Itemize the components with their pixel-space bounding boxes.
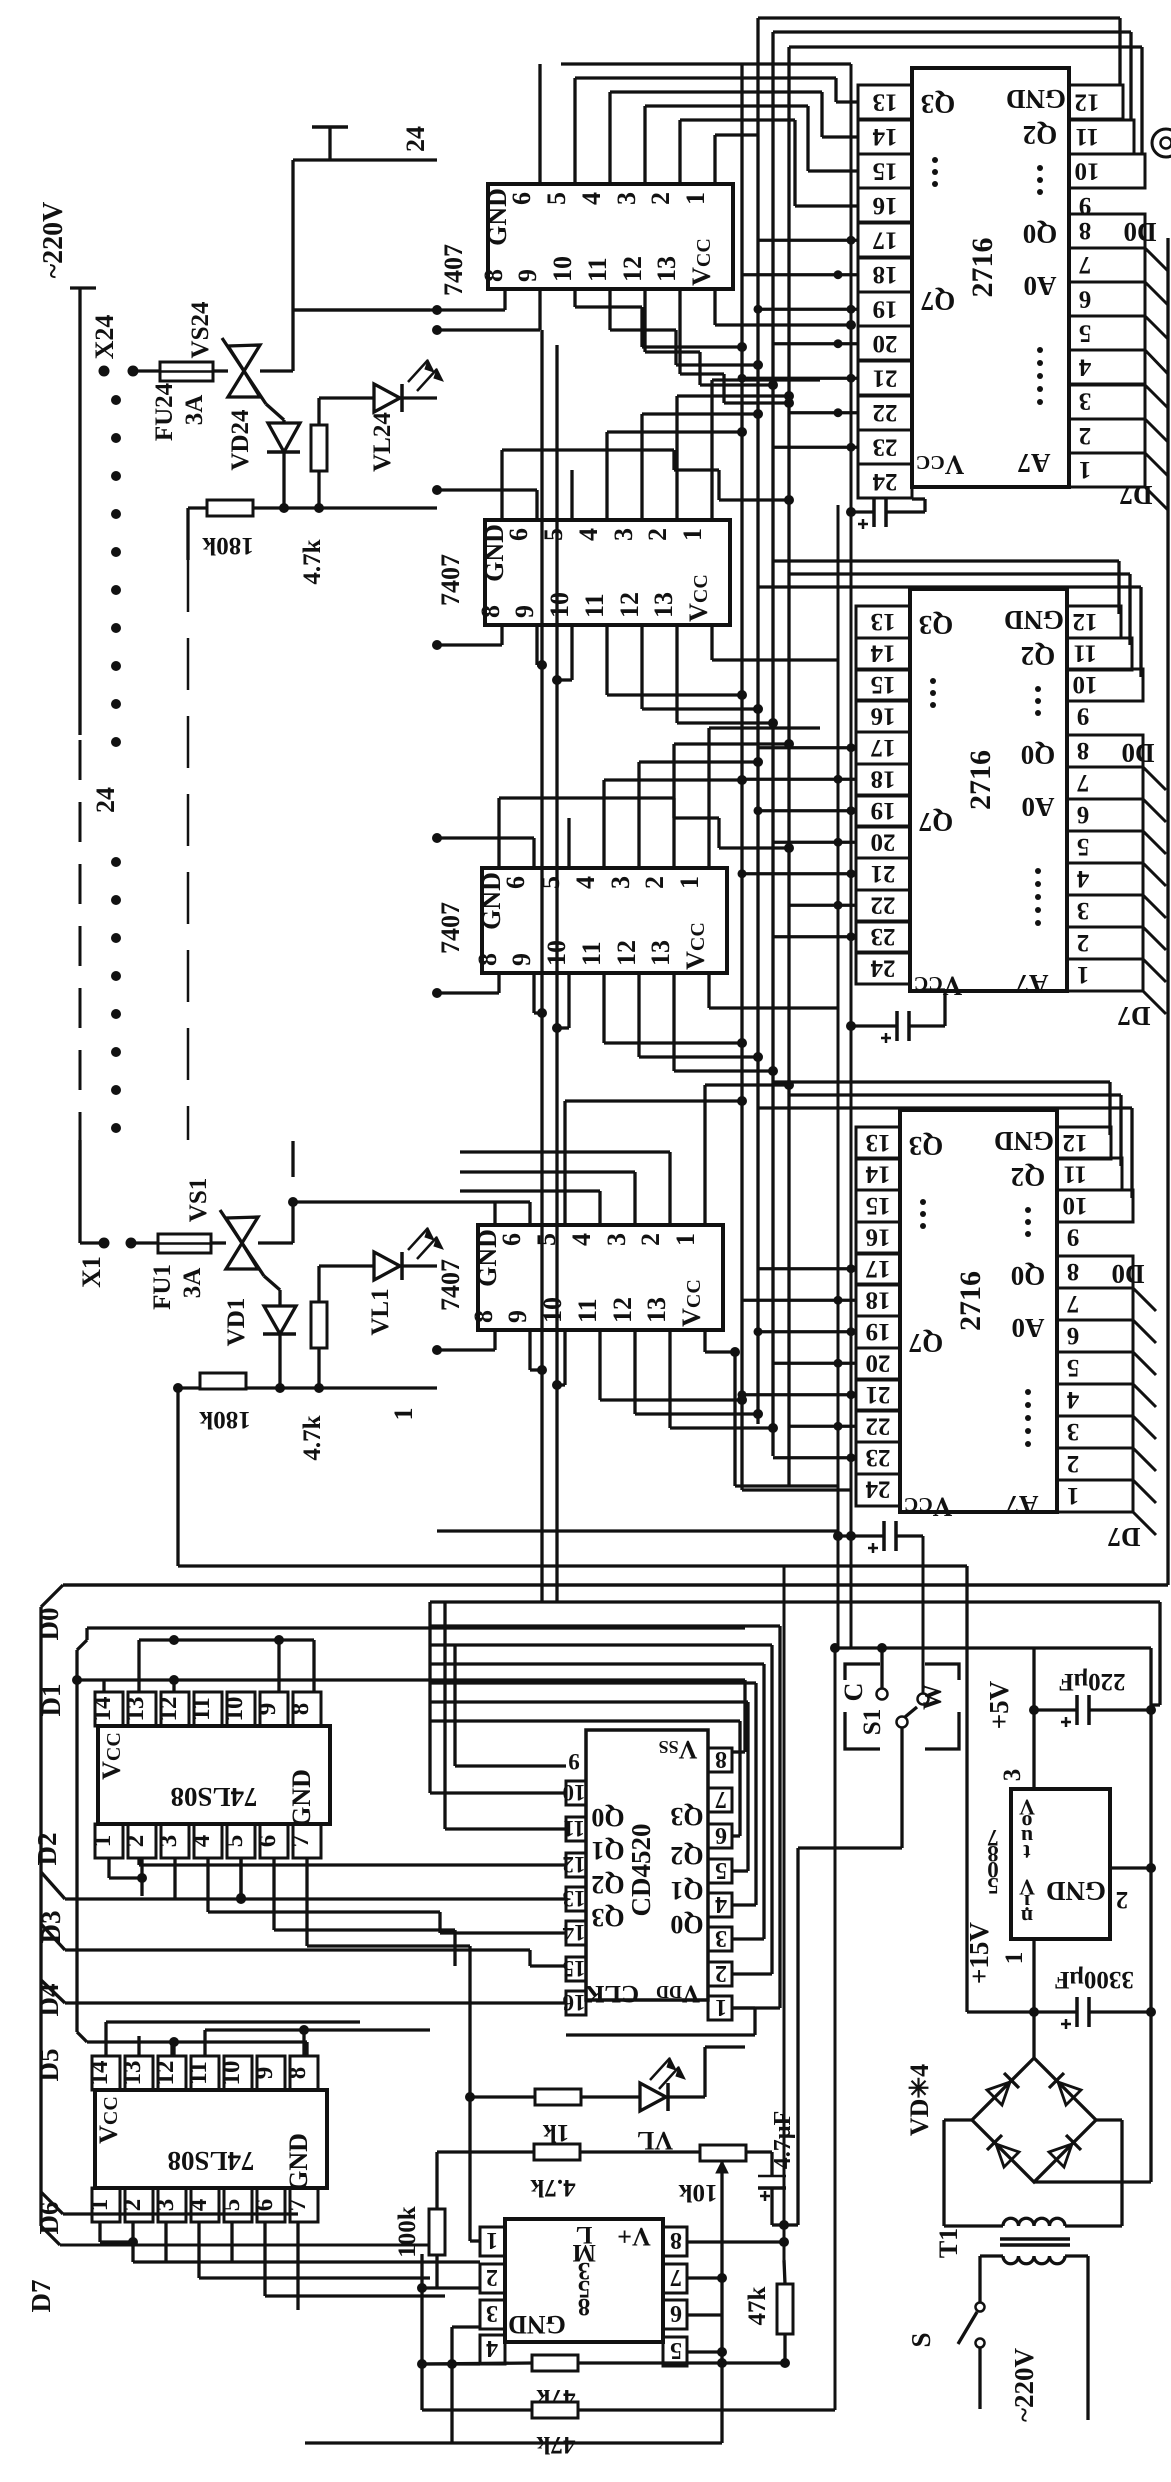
- svg-text:16: 16: [873, 192, 898, 219]
- svg-text:7407: 7407: [436, 1259, 465, 1311]
- 2716 U1 data pin stubs 8-1 with bus diagonals: [1069, 214, 1145, 487]
- svg-text:VL1: VL1: [367, 1288, 394, 1335]
- wire cap3 to S1 W: [922, 1536, 925, 1693]
- svg-text:VD1: VD1: [223, 1298, 250, 1347]
- +15V rail: [965, 1566, 968, 2012]
- svg-text:16: 16: [563, 1990, 586, 2015]
- svg-text:Q0: Q0: [1021, 740, 1056, 770]
- svg-text:4.7k: 4.7k: [299, 1415, 326, 1460]
- wire: mains vertical rail: [70, 286, 96, 289]
- svg-text:5: 5: [670, 2337, 682, 2363]
- svg-text:16: 16: [871, 702, 896, 729]
- address stub connection wires: [758, 1267, 856, 1270]
- svg-text:18: 18: [873, 261, 898, 288]
- EPROM 2716 U2 body: [910, 589, 1067, 991]
- svg-text:2: 2: [1067, 1450, 1080, 1477]
- svg-text:5: 5: [1077, 833, 1090, 860]
- svg-text:1: 1: [86, 2199, 113, 2212]
- svg-text:11: 11: [1073, 639, 1097, 666]
- CD4520 wires right: outputs up-left: [430, 1624, 780, 1627]
- svg-text:3A: 3A: [179, 1268, 206, 1299]
- resistor 4.7k (ch1): [317, 1266, 320, 1302]
- svg-text:20: 20: [866, 1349, 891, 1376]
- svg-text:7: 7: [1077, 769, 1090, 796]
- svg-text:2: 2: [486, 2264, 498, 2290]
- svg-text:1: 1: [1077, 961, 1090, 988]
- svg-text:Q2: Q2: [670, 1841, 703, 1870]
- buffer IC 7407 #4: [469, 1225, 723, 1330]
- svg-text:24: 24: [870, 954, 896, 981]
- svg-text:20: 20: [873, 330, 898, 357]
- svg-text:+5V: +5V: [984, 1680, 1014, 1729]
- svg-text:C: C: [839, 1683, 868, 1702]
- selector switch S1 dashed box: [845, 1664, 880, 1680]
- svg-text:X24: X24: [90, 315, 119, 360]
- svg-text:4: 4: [1066, 1386, 1079, 1413]
- resistor 4.7k bottom: [534, 2144, 580, 2160]
- svg-text:D7: D7: [1120, 480, 1153, 510]
- LED VL24: [319, 396, 374, 399]
- svg-text:5: 5: [1079, 319, 1092, 346]
- svg-text:Q2: Q2: [1023, 120, 1058, 150]
- svg-text:3300µF: 3300µF: [1054, 1966, 1134, 1993]
- svg-text:7: 7: [1067, 1290, 1080, 1317]
- 74LS08 U4 top pin stubs 14-8: [95, 1692, 321, 1726]
- svg-text:VD24: VD24: [227, 409, 254, 471]
- svg-text:n: n: [1021, 1905, 1033, 1930]
- svg-text:D0: D0: [1122, 738, 1155, 768]
- svg-text:V+: V+: [617, 2222, 651, 2251]
- svg-text:14: 14: [89, 1696, 116, 1722]
- svg-text:12: 12: [1073, 608, 1098, 635]
- 7407#2 bottom pin wires: [500, 625, 503, 645]
- long vertical bus lines: [756, 18, 759, 1424]
- channel 1: wire X1 to fuse: [136, 1241, 158, 1244]
- svg-text:7: 7: [715, 1786, 727, 1812]
- svg-text:GND: GND: [287, 1769, 316, 1827]
- 74LS08 U5 bottom pin stubs 1-7: [92, 2188, 318, 2222]
- svg-text:VS1: VS1: [185, 1178, 212, 1222]
- svg-text:Q0: Q0: [1011, 1261, 1046, 1291]
- svg-text:9: 9: [254, 1703, 281, 1716]
- svg-text:21: 21: [871, 860, 896, 887]
- 7407#2 top pin wires: [437, 488, 537, 491]
- +5V rail: [1032, 1648, 1035, 1789]
- svg-text:D7: D7: [26, 2280, 56, 2313]
- svg-text:D7: D7: [1118, 1001, 1151, 1031]
- svg-text:10: 10: [218, 2061, 245, 2086]
- wire: 180k left select line to bottom: [178, 1386, 200, 1389]
- svg-text:11: 11: [1075, 123, 1099, 150]
- wire gnd return: [834, 1648, 837, 2410]
- svg-text:FU24: FU24: [151, 382, 178, 441]
- D1 top feed: [87, 1626, 745, 1629]
- CD4520 right pin stubs: [708, 1748, 732, 2020]
- svg-text:A7: A7: [1018, 448, 1051, 478]
- channel 24: wire X24 to fuse: [138, 369, 160, 372]
- 7407#1 top pin wires: [538, 64, 541, 184]
- resistor 100k: [435, 2152, 438, 2209]
- node wires ch1: [246, 1386, 437, 1389]
- svg-text:Q2: Q2: [591, 1870, 624, 1899]
- svg-text:6: 6: [251, 2199, 278, 2212]
- svg-text:2: 2: [119, 2199, 146, 2212]
- svg-text:8: 8: [1077, 737, 1090, 764]
- ground/common bar: [312, 125, 348, 129]
- capacitor 4.7uF: [746, 2150, 772, 2153]
- chip2/chip3 pins 12-10 bus links: [773, 559, 1119, 562]
- svg-text:10: 10: [221, 1697, 248, 1722]
- svg-text:10k: 10k: [678, 2179, 717, 2206]
- svg-text:2716: 2716: [966, 238, 999, 298]
- page connector marker: [1152, 129, 1171, 157]
- 2716 U1 left pin stubs 13-24: [858, 85, 912, 498]
- svg-text:1: 1: [715, 1994, 727, 2020]
- wire D7 line: [60, 2244, 436, 2247]
- svg-text:10: 10: [1073, 671, 1098, 698]
- svg-text:GND: GND: [508, 2310, 566, 2339]
- S1 terminal C: [877, 1689, 888, 1700]
- svg-text:13: 13: [871, 608, 896, 635]
- svg-text:18: 18: [866, 1286, 891, 1313]
- buffer IC 7407 #1: [479, 184, 733, 289]
- svg-text:100k: 100k: [394, 2206, 421, 2258]
- svg-text:8: 8: [1079, 217, 1092, 244]
- svg-text:14: 14: [870, 639, 896, 666]
- svg-text:9: 9: [1067, 1223, 1080, 1250]
- svg-text:23: 23: [873, 433, 898, 460]
- svg-text:4.7k: 4.7k: [530, 2174, 575, 2201]
- 74LS08 U4 bottom pin stubs 1-7: [95, 1824, 321, 1858]
- svg-text:5: 5: [715, 1857, 727, 1883]
- svg-text:24: 24: [401, 126, 430, 152]
- svg-text:Q3: Q3: [591, 1903, 624, 1932]
- svg-text:24: 24: [872, 468, 898, 495]
- svg-text:7407: 7407: [439, 244, 468, 296]
- S1 pole: [897, 1717, 908, 1728]
- svg-text:8: 8: [578, 2293, 591, 2320]
- svg-text:21: 21: [866, 1381, 891, 1408]
- 2716 U1 right pin stubs 12-9: [1069, 85, 1145, 188]
- svg-text:8: 8: [670, 2227, 682, 2253]
- 74LS08 U5 top pin stubs 14-8: [92, 2056, 318, 2090]
- capacitor 3300uF: [1075, 1997, 1079, 2027]
- switch S: [978, 2256, 981, 2302]
- svg-text:13: 13: [122, 1697, 149, 1722]
- capacitor 220uF: [1034, 1708, 1077, 1711]
- wire: MT2 stub to common line: [291, 160, 294, 310]
- 7805 pin1 wire: [1032, 1939, 1035, 2012]
- svg-text:D2: D2: [32, 1833, 62, 1866]
- AND IC 74LS08 U4 body: [98, 1726, 330, 1824]
- svg-text:Q0: Q0: [591, 1803, 624, 1832]
- resistor 47k vertical: [784, 2260, 785, 2284]
- triac VS1: [211, 1241, 226, 1244]
- svg-text:3A: 3A: [181, 395, 208, 426]
- address stub connection wires: [758, 746, 856, 749]
- resistor 47k #1: [532, 2355, 578, 2371]
- terminal X1: [99, 1238, 110, 1249]
- bridge rectifier VD*4: [1032, 2012, 1035, 2058]
- 2716 U2 left pin stubs 13-24: [856, 606, 910, 984]
- svg-text:12: 12: [155, 1697, 182, 1722]
- svg-text:8: 8: [715, 1746, 727, 1772]
- svg-text:220µF: 220µF: [1058, 1668, 1125, 1695]
- EPROM 2716 U3 body: [900, 1110, 1057, 1512]
- 74LS08 U5 wires: [104, 2022, 107, 2056]
- wire +15V to LM358 V+: [783, 1567, 786, 2260]
- 74LS08 U4 wires: [102, 1680, 105, 1692]
- 2716 U2 right pin stubs 12-9: [1067, 606, 1143, 701]
- EPROM 2716 U1 body: [912, 68, 1069, 487]
- svg-text:3: 3: [715, 1925, 727, 1951]
- data bus D0-D7 spine: [39, 1607, 42, 2226]
- svg-text:6: 6: [254, 1835, 281, 1848]
- svg-text:W: W: [918, 1684, 947, 1710]
- svg-text:12: 12: [1063, 1129, 1088, 1156]
- node wires ch24: [253, 506, 437, 509]
- svg-text:6: 6: [1067, 1322, 1080, 1349]
- D3 line: [41, 1924, 65, 1950]
- 7407#4 bottom pin wires: [493, 1330, 496, 1350]
- LM358 right pin stubs 8-5: [663, 2227, 687, 2366]
- svg-text:3: 3: [999, 1769, 1026, 1782]
- wire: VS24 MT2 up and right: [260, 369, 293, 372]
- svg-text:19: 19: [873, 295, 898, 322]
- svg-text:74LS08: 74LS08: [170, 1782, 257, 1812]
- resistor 1k: [535, 2089, 581, 2105]
- svg-text:6: 6: [1077, 801, 1090, 828]
- terminal dots column (channels 2..23): [111, 395, 121, 405]
- svg-text:2: 2: [1077, 929, 1090, 956]
- svg-text:14: 14: [865, 1160, 891, 1187]
- svg-text:Q3: Q3: [670, 1802, 703, 1831]
- svg-text:13: 13: [873, 88, 898, 115]
- resistor 180k (ch24): [207, 500, 253, 516]
- svg-text:3: 3: [1067, 1418, 1080, 1445]
- svg-text:D5: D5: [34, 2049, 64, 2082]
- svg-text:Q1: Q1: [670, 1876, 703, 1905]
- svg-text:13: 13: [866, 1129, 891, 1156]
- svg-text:20: 20: [871, 828, 896, 855]
- svg-text:74LS08: 74LS08: [167, 2146, 254, 2176]
- GND rail top: [838, 1646, 1151, 1649]
- wire: VS1 MT2 up and right: [258, 1241, 293, 1244]
- svg-text:5: 5: [1067, 1354, 1080, 1381]
- svg-text:+15V: +15V: [964, 1922, 994, 1984]
- decoupling capacitor C2: [851, 1024, 897, 1027]
- svg-text:4: 4: [486, 2335, 498, 2361]
- wire: 180k left to select line: [188, 506, 207, 509]
- CD4520 extra feed verticals: [428, 1602, 431, 1793]
- svg-text:Q0: Q0: [1023, 219, 1058, 249]
- svg-text:Q7: Q7: [919, 807, 954, 837]
- svg-text:15: 15: [873, 157, 898, 184]
- LED VL: [640, 2083, 666, 2111]
- select line from 180k: [178, 1564, 967, 1567]
- diode VD1: [278, 1290, 281, 1306]
- D6 line: [41, 2192, 63, 2214]
- S1 terminal W: [918, 1694, 929, 1705]
- svg-text:7: 7: [1079, 251, 1092, 278]
- fuse FU1 3A: [158, 1234, 211, 1253]
- line y1602: [430, 1600, 1160, 1603]
- svg-text:11: 11: [185, 2061, 212, 2085]
- svg-text:4: 4: [188, 1834, 215, 1847]
- bridge corners wiring: [944, 2118, 972, 2121]
- fuse FU24 3A: [160, 362, 213, 381]
- svg-text:21: 21: [873, 364, 898, 391]
- svg-text:4: 4: [1076, 865, 1089, 892]
- svg-text:9: 9: [568, 1749, 580, 1774]
- svg-text:7407: 7407: [436, 554, 465, 606]
- bus line y64: [561, 62, 851, 65]
- svg-text:VDD: VDD: [656, 1980, 700, 2007]
- D0 top line: [63, 1583, 1168, 1586]
- svg-text:180k: 180k: [202, 532, 254, 559]
- 2716 U3 data pin stubs 8-1 with bus diagonals: [1057, 1256, 1133, 1512]
- 2716 U3 left pin stubs 13-24: [856, 1127, 900, 1506]
- svg-text:12: 12: [1075, 88, 1100, 115]
- svg-text:t: t: [1023, 1840, 1031, 1865]
- svg-text:A7: A7: [1016, 969, 1049, 999]
- svg-text:15: 15: [871, 671, 896, 698]
- svg-text:15: 15: [866, 1192, 891, 1219]
- buffer IC 7407 #3: [473, 868, 727, 973]
- 2716 U2 data pin stubs 8-1 with bus diagonals: [1067, 735, 1143, 991]
- svg-text:A0: A0: [1022, 792, 1055, 822]
- svg-text:4: 4: [715, 1891, 727, 1917]
- svg-text:Q0: Q0: [670, 1910, 703, 1939]
- svg-text:A0: A0: [1012, 1313, 1045, 1343]
- svg-text:1: 1: [1001, 1952, 1028, 1965]
- svg-text:FU1: FU1: [149, 1264, 176, 1310]
- svg-text:1: 1: [389, 1408, 418, 1421]
- svg-text:D0: D0: [1124, 217, 1157, 247]
- svg-text:3: 3: [155, 1835, 182, 1848]
- svg-text:7: 7: [287, 1835, 314, 1848]
- svg-text:T1: T1: [934, 2228, 963, 2258]
- svg-text:2: 2: [122, 1835, 149, 1848]
- svg-text:10: 10: [1075, 157, 1100, 184]
- svg-text:1: 1: [89, 1835, 116, 1848]
- svg-text:VD✳4: VD✳4: [905, 2064, 934, 2136]
- svg-text:22: 22: [866, 1412, 891, 1439]
- svg-text:Q2: Q2: [1011, 1162, 1046, 1192]
- svg-text:3: 3: [152, 2199, 179, 2212]
- svg-text:13: 13: [119, 2061, 146, 2086]
- D2 line: [41, 1872, 65, 1899]
- LED arrows ch1: [408, 1228, 428, 1250]
- svg-text:D7: D7: [1108, 1522, 1141, 1552]
- svg-text:Q1: Q1: [591, 1836, 624, 1865]
- CD4520 left pin stubs: [566, 1781, 586, 2015]
- svg-text:D0: D0: [1112, 1259, 1145, 1289]
- svg-text:17: 17: [866, 1255, 891, 1282]
- svg-text:VS24: VS24: [187, 301, 214, 358]
- resistor 180k (ch1): [200, 1373, 246, 1389]
- broken repeat stub: [291, 1141, 294, 1177]
- right rail: [1149, 1648, 1152, 2182]
- 7407#3 bottom pin wires: [497, 973, 500, 993]
- svg-text:1: 1: [486, 2227, 498, 2253]
- svg-text:5: 5: [987, 1873, 999, 1898]
- svg-text:5: 5: [221, 1835, 248, 1848]
- potentiometer 10k: [700, 2145, 746, 2161]
- rail GND/VCC right: [850, 64, 853, 1648]
- svg-text:VL24: VL24: [369, 412, 396, 472]
- CD4520 wires left: [455, 1764, 566, 1767]
- CLK/VDD wires: [732, 2006, 755, 2009]
- svg-text:CD4520: CD4520: [626, 1824, 656, 1917]
- top bus lines to 2716 U1 pins 12,11,10: [758, 16, 1120, 19]
- svg-text:GND: GND: [1046, 1876, 1106, 1906]
- svg-text:GND: GND: [1004, 605, 1064, 635]
- svg-text:7: 7: [670, 2264, 682, 2290]
- svg-text:2: 2: [1116, 1886, 1129, 1913]
- svg-text:2716: 2716: [964, 750, 997, 810]
- address stub connection wires: [758, 239, 858, 242]
- svg-text:180k: 180k: [199, 1406, 251, 1433]
- 7407#1 bottom pin wires: [503, 289, 506, 310]
- svg-text:GND: GND: [994, 1126, 1054, 1156]
- svg-text:1k: 1k: [543, 2119, 570, 2146]
- svg-text:Q2: Q2: [1021, 641, 1056, 671]
- D5 line: [77, 2032, 87, 2042]
- resistor 4.7k (ch24): [317, 398, 320, 425]
- svg-text:9: 9: [251, 2067, 278, 2080]
- channel drive line: [437, 1529, 838, 1532]
- svg-text:24: 24: [91, 787, 120, 813]
- svg-text:14: 14: [86, 2060, 113, 2086]
- svg-text:Q3: Q3: [909, 1131, 944, 1161]
- resistor 47k #2: [532, 2402, 578, 2418]
- svg-text:23: 23: [871, 923, 896, 950]
- svg-text:11: 11: [1063, 1160, 1087, 1187]
- svg-text:16: 16: [866, 1223, 891, 1250]
- LM358 pin wires: [470, 2239, 480, 2242]
- svg-text:A7: A7: [1006, 1490, 1039, 1520]
- svg-text:13: 13: [563, 1886, 586, 1911]
- diode VD24: [282, 420, 285, 423]
- buffer IC 7407 #2: [476, 520, 730, 625]
- svg-text:~220V: ~220V: [38, 202, 69, 279]
- svg-text:7407: 7407: [436, 902, 465, 954]
- svg-text:2716: 2716: [954, 1271, 987, 1331]
- svg-text:15: 15: [563, 1956, 586, 1981]
- svg-text:17: 17: [871, 734, 896, 761]
- svg-text:6: 6: [715, 1822, 727, 1848]
- data bus spine right edge: [1166, 238, 1169, 1585]
- svg-text:Q7: Q7: [921, 286, 956, 316]
- svg-text:D3: D3: [36, 1911, 66, 1944]
- counter IC CD4520 body: [586, 1730, 708, 2000]
- svg-text:S1: S1: [859, 1709, 886, 1735]
- svg-text:22: 22: [871, 891, 896, 918]
- svg-text:10: 10: [1063, 1192, 1088, 1219]
- decoupling capacitor C3: [838, 1534, 884, 1537]
- dashed channel-boundary line: [187, 560, 190, 1140]
- svg-text:GND: GND: [284, 2133, 313, 2191]
- svg-text:22: 22: [873, 399, 898, 426]
- svg-text:6: 6: [670, 2300, 682, 2326]
- decoupling capacitor C1: [851, 510, 874, 513]
- svg-text:24: 24: [865, 1475, 891, 1502]
- LED arrows: [408, 360, 428, 382]
- svg-text:47k: 47k: [744, 2286, 771, 2325]
- svg-text:D0: D0: [34, 1608, 64, 1641]
- regulator 7805: [1011, 1789, 1110, 1939]
